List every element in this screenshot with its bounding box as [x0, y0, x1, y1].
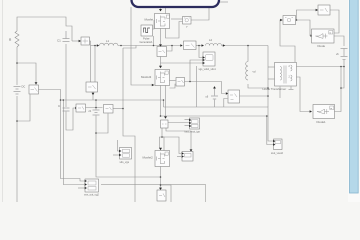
- junction node mid2 out: [267, 95, 269, 97]
- svg-text:Mosfet2: Mosfet2: [143, 156, 154, 160]
- wire I2 junction down to vgs port1: [199, 46, 203, 58]
- wire x123 top link to L1 net: [123, 46, 136, 49]
- scope von_vout_vg2: [85, 179, 99, 192]
- svg-text:m: m: [329, 33, 331, 35]
- wire y100 bus: [61, 99, 164, 101]
- wire c6 column: [214, 89, 216, 96]
- wire RB1 input from C1 node: [72, 40, 79, 42]
- wire mid2 lower port from bus: [224, 99, 228, 108]
- junction node RB3 out: [189, 81, 191, 83]
- mosfet M1: [155, 14, 170, 29]
- wire vmeas2 bottom left port down to M2: [160, 128, 163, 148]
- port arrow M3 gate: [152, 84, 154, 86]
- wire navy top right: [219, 1, 228, 3]
- wire node down to Lm: [247, 46, 249, 62]
- wire R to battery: [16, 47, 18, 85]
- wire M3 right to RB3 ports: [170, 80, 176, 82]
- inductor L2: [206, 44, 222, 46]
- wire C column bottom loop: [66, 108, 76, 130]
- junction node Lm top: [247, 45, 249, 47]
- junction node cb return: [95, 132, 97, 134]
- block B2: [157, 47, 167, 57]
- junction node left bus y63: [16, 62, 18, 64]
- wire M2 net right down: [161, 185, 172, 202]
- annotation area box bottom center: [101, 185, 206, 203]
- wire v meas out up: [191, 4, 209, 20]
- junction node x123-D2: [122, 108, 124, 110]
- source cb ticks: [93, 110, 100, 115]
- scope vgs_vds2_vds1: [203, 52, 215, 66]
- wire Imeas1 out right and down to scope: [39, 90, 85, 182]
- wire L2 to transformer node: [222, 45, 269, 47]
- port arrow M2 drain top: [159, 148, 162, 150]
- wire mid2 out to transformer column: [240, 95, 269, 97]
- wire y107 left end up: [163, 100, 165, 107]
- wire y107 long bus: [164, 107, 274, 141]
- junction node y116 right: [266, 115, 268, 117]
- junction node y100 left: [60, 99, 62, 101]
- wire L1 tap down to RB2: [94, 46, 96, 83]
- junction node bus y116: [160, 115, 162, 117]
- svg-text:C1: C1: [57, 39, 61, 43]
- junction node vb-y66: [343, 66, 345, 68]
- linear transformer: [275, 63, 297, 87]
- capacitor C: [63, 108, 70, 111]
- junction node M2 source: [160, 184, 162, 186]
- wire M1 source down to B2: [160, 29, 162, 47]
- port arrow M2 gate: [190, 149, 193, 151]
- wire D1 to D2: [86, 107, 103, 109]
- wire PG bottom junction: [153, 36, 155, 46]
- block D2: [104, 105, 114, 114]
- svg-text:L2: L2: [209, 38, 213, 42]
- port arrow vmeas2 input top: [164, 116, 167, 118]
- wire D2 return down: [96, 114, 108, 134]
- scrollbar: [348, 0, 360, 202]
- wire battery node to Imeas1 top: [17, 63, 36, 85]
- wire M3 m-line down to vmeas2: [165, 86, 167, 119]
- wire M3 source down to bus: [160, 86, 162, 117]
- wire vb column: [343, 49, 345, 57]
- wire Diode out to vb: [334, 36, 344, 46]
- junction node I2 out: [198, 45, 200, 47]
- wire transformer lower right to Diode1: [297, 77, 311, 112]
- wire x123 vertical with jog to x135: [123, 48, 135, 202]
- junction node A out: [296, 19, 298, 21]
- wire branch to Imeas1: [17, 95, 30, 122]
- port arrows (black): [35, 9, 313, 190]
- svg-text:Linear Transformer: Linear Transformer: [263, 87, 287, 91]
- wire A out to Diode: [296, 20, 314, 36]
- v meas block (top): [183, 17, 192, 25]
- port arrow Diode1 input: [310, 110, 312, 112]
- svg-text:DC: DC: [22, 85, 26, 89]
- mosfet M3: [155, 70, 170, 86]
- vmeas2 (center): [161, 120, 169, 128]
- junction node Lm bottom: [267, 87, 269, 89]
- wire B input: [297, 10, 319, 20]
- svg-text:iout_vout2: iout_vout2: [271, 151, 284, 155]
- block RB2: [86, 82, 98, 92]
- wire battery down to bottom: [16, 96, 18, 202]
- diode1: [313, 105, 335, 119]
- block D1: [76, 104, 86, 112]
- capacitor C1: [63, 31, 70, 42]
- block B (top right): [316, 5, 330, 15]
- resistor R: [15, 31, 19, 47]
- wire top-left loop: [17, 17, 72, 41]
- mosfet M2: [155, 151, 170, 167]
- port arrow SPS input top: [159, 188, 162, 190]
- port arrow L2 input: [202, 44, 204, 46]
- wire vmeas2 m to SCX top: [166, 128, 191, 151]
- wire D2 out: [113, 108, 124, 110]
- canvas left edge line: [2, 0, 4, 202]
- block mid2: [228, 90, 240, 103]
- wire B out: [330, 10, 339, 33]
- wire vds_vgs scope stubs: [118, 140, 120, 151]
- junction node y100 right: [163, 99, 165, 101]
- junction node PG net: [153, 45, 155, 47]
- wire RB3 out up to vgs port2: [185, 60, 204, 82]
- current meas Imeas1: [29, 85, 39, 94]
- wire RB2 bottom meas to y100: [92, 92, 94, 100]
- wire RB1 out down to RB2: [90, 41, 91, 82]
- scope iout_vout2: [273, 139, 282, 150]
- wire SCX port2 stub: [177, 156, 181, 158]
- port arrow RB2 meas down: [92, 93, 95, 95]
- wire PG out to M1 gate: [153, 21, 156, 30]
- junction node vb bottom: [340, 87, 342, 89]
- scope vds_vgs: [119, 148, 131, 160]
- block RB1: [79, 37, 90, 45]
- svg-text:L1: L1: [106, 39, 110, 43]
- wire x131 navy down to M3 gate: [131, 7, 155, 85]
- pulse generator1: [141, 25, 153, 36]
- wire y116 long bus: [161, 116, 274, 145]
- port arrow transformer node input: [223, 44, 225, 46]
- svg-text:Mosfet3: Mosfet3: [141, 75, 152, 79]
- wire L1 net: [91, 45, 95, 47]
- block RB3: [176, 78, 185, 87]
- wire third scope stub: [78, 187, 84, 189]
- svg-text:Generator1: Generator1: [140, 40, 154, 44]
- junction node bus y177: [160, 176, 162, 178]
- junction node cb-D1: [95, 107, 97, 109]
- wire C1 column down: [65, 44, 67, 107]
- current meas I2: [184, 41, 197, 50]
- meas arrow c6 up: [213, 86, 216, 88]
- port arrow D1 input: [75, 107, 77, 109]
- diode (top right): [312, 29, 335, 43]
- DC battery source: [14, 87, 21, 95]
- wire x341 down to Diode1: [335, 67, 342, 112]
- wire M1 drain to v meas upper input: [171, 18, 183, 20]
- bottom block SPS: [157, 190, 166, 201]
- svg-text:vds_vgs: vds_vgs: [120, 160, 130, 164]
- port arrow mid2 input: [226, 92, 228, 94]
- wire junction to SCX port1: [162, 137, 181, 154]
- block A (vmeas top right): [283, 16, 296, 25]
- scope iout_vout_igs: [189, 118, 199, 129]
- inductor Lm: [246, 62, 248, 80]
- wire y66.5 bus: [297, 66, 345, 68]
- navy annotation box: [132, 0, 220, 7]
- wire transformer port stubs: [268, 66, 275, 68]
- svg-text:m: m: [330, 108, 332, 110]
- junction node left bus y121: [16, 120, 18, 122]
- wire M2 source down to SPS: [160, 167, 162, 190]
- inductor L1: [100, 43, 118, 45]
- wire M1 m-line to v meas lower input: [166, 22, 183, 39]
- port arrow I2 input: [180, 44, 182, 46]
- junction node L1 right: [120, 45, 122, 47]
- wire transformer bottom stub: [279, 87, 281, 99]
- wire B2 bottom to M3: [160, 57, 162, 68]
- svg-text:Diode1: Diode1: [317, 120, 327, 124]
- wire second scope feed: [63, 100, 84, 185]
- junction node y100 feed: [63, 99, 65, 101]
- wire iout scope stubs: [168, 122, 189, 124]
- c6 branch: [211, 96, 218, 99]
- wire B2 out up to L1 net: [167, 46, 173, 52]
- wire I2 out to L2: [196, 45, 204, 47]
- wire Lm bottom to transformer left column: [248, 84, 268, 88]
- port arrow L1 input: [97, 44, 99, 46]
- scope SCX: [182, 152, 193, 162]
- wire y63 to vgs scope port3: [161, 62, 204, 64]
- junction node x341-y66: [340, 66, 342, 68]
- wire navy to M1 drain: [160, 7, 162, 11]
- wire vgs scope bottom down to y107 bus: [196, 66, 198, 107]
- port arrow A input: [280, 19, 282, 21]
- svg-text:Mosfet: Mosfet: [145, 18, 154, 22]
- port arrow Imeas1 top input: [35, 82, 38, 84]
- junction node cb top: [95, 99, 97, 101]
- svg-text:iout_vout_igs: iout_vout_igs: [185, 130, 201, 134]
- wire cb source column: [95, 100, 97, 110]
- junction node L1 left: [94, 45, 96, 47]
- wire A block input vertical: [280, 20, 295, 62]
- junction node B2 out: [171, 45, 173, 47]
- junction node vmeas2 net: [161, 136, 163, 138]
- port arrow Diode input: [311, 35, 313, 37]
- port arrow M1 drain top: [159, 9, 162, 11]
- svg-text:von_out_vg2: von_out_vg2: [84, 193, 99, 197]
- port arrow M3 drain top: [159, 66, 162, 68]
- svg-text:vgs_vds2_vds1: vgs_vds2_vds1: [199, 68, 217, 71]
- svg-text:Diode: Diode: [318, 44, 326, 48]
- port arrow B2 input top: [159, 44, 162, 46]
- svg-text:vd: vd: [253, 70, 256, 74]
- wire transformer left column: [267, 46, 269, 108]
- wire y81.5 to c6 elbow: [190, 82, 226, 94]
- capacitor vb: [341, 49, 348, 60]
